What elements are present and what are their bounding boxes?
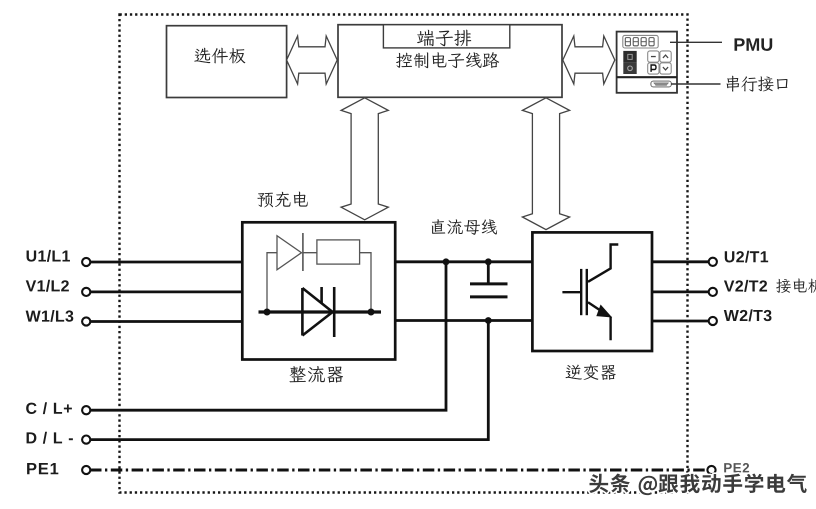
wire U1/L1 [90,261,243,264]
wire V1/L2 [90,290,243,293]
terminal U2/T1 [709,258,717,266]
label PE2 [724,463,749,472]
control electronics box 控制电子线路 [338,25,562,98]
IGBT emitter arrowhead [596,305,612,318]
IGBT gate bar [580,269,582,315]
label W1/L3 [26,310,74,322]
watermark text [589,474,806,496]
label V1/L2 [26,280,69,292]
junction dot left [264,309,271,316]
IGBT symbol [562,245,618,341]
label PE1 [27,463,58,474]
wire W2/T3 [651,320,708,323]
label C/L+ [26,402,72,414]
terminal W2/T3 [709,317,717,325]
thyristor/diode symbol [302,288,332,336]
junction dot on DC- [485,317,492,324]
double arrow: control <-> rectifier [341,98,388,220]
double arrow: control <-> PMU [563,36,615,84]
terminal D/L- [82,436,90,444]
label U2/T1 [725,251,768,263]
precharge label 预充电 [257,193,273,208]
terminal W1/L3 [82,317,90,325]
label 接电机 [776,279,791,293]
wire D/L- vertical [90,321,488,440]
capacitor bottom plate [470,295,508,298]
PMU keypad buttons [648,51,659,62]
double arrow: control <-> inverter [522,98,569,230]
leader line to PMU label [670,41,722,43]
rectifier label 整流器 [290,366,306,382]
precharge branch wires [267,253,371,312]
terminal V1/L2 [82,288,90,296]
option board box 选件板 [167,26,287,98]
PMU seven-segment display [623,35,658,48]
IGBT emitter lead [588,302,611,340]
capacitor top plate [470,282,508,285]
PMU serial connector [651,81,671,87]
PMU operator panel [617,32,677,93]
rectifier main bus [259,310,382,313]
DC bus - wire [394,319,533,322]
terminal U1/L1 [82,258,90,266]
terminal PE1 [82,466,90,474]
serial interface label 串行接口 [727,76,740,92]
IGBT body bar [586,269,588,315]
leader line to serial interface label [671,83,721,85]
IGBT collector lead [588,245,618,282]
inverter box [532,232,652,351]
wire V2/T2 [651,290,708,293]
PMU housing [617,32,677,93]
PMU dark key top [623,51,636,63]
DC bus label 直流母线 [432,219,445,234]
precharge diode [277,236,302,270]
junction dot capacitor top on DC+ [485,258,492,265]
dashed enclosure border [120,15,688,493]
precharge resistor [317,240,360,264]
label V2/T2 [724,280,767,292]
watermark halo [589,474,806,496]
rectifier box [242,222,395,359]
PMU separator [617,76,677,78]
PMU label [735,38,773,51]
junction dot right [368,309,375,316]
junction dot C/L+ on DC+ [443,258,450,265]
inverter label 逆变器 [566,365,582,380]
label U1/L1 [27,250,70,262]
terminal C/L+ [82,406,90,414]
wire U2/T1 [651,260,708,263]
DC link capacitor [487,262,490,284]
IGBT gate lead [562,291,580,293]
terminal V2/T2 [709,288,717,296]
label W2/T3 [724,309,772,321]
double arrow: option board <-> control [287,36,338,84]
DC bus + wire [394,260,533,263]
PMU dark key bottom [623,63,636,74]
label D/L- [27,432,73,444]
wire W1/L3 [90,320,243,323]
terminal PE2 [707,466,715,474]
wire C/L+ horizontal [90,262,446,410]
terminal strip box 端子排 [383,25,509,48]
PE1 dash-dot protective earth wire [90,469,708,472]
